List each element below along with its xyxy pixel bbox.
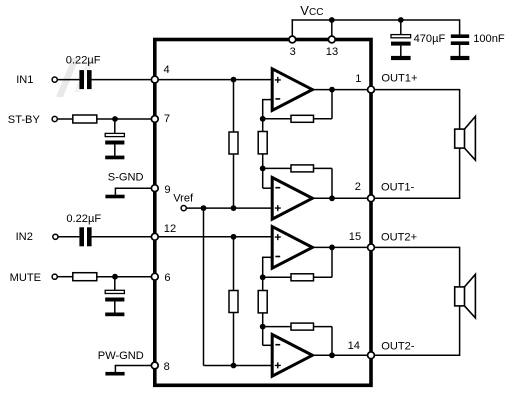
junction IN2-bias	[231, 234, 237, 240]
ground C4 bar	[450, 56, 469, 60]
wire IN1 to pin 4	[57, 79, 79, 81]
op-amp U1C	[272, 227, 312, 269]
junction op1 inverting node	[260, 116, 266, 122]
capacitor C1 0.22uF	[79, 70, 84, 89]
wire OUT2+ from op3 to pin 15 and speaker	[312, 246, 459, 248]
svg-text:OUT1+: OUT1+	[381, 72, 417, 84]
wire rail A Vref down to lower amps	[203, 208, 205, 365]
svg-text:15: 15	[349, 231, 361, 243]
op-amp U1B	[272, 178, 312, 220]
svg-text:PW-GND: PW-GND	[98, 350, 144, 362]
svg-text:IN1: IN1	[16, 74, 33, 86]
wire feedback op4	[263, 326, 332, 328]
op-amp U1D	[272, 335, 312, 377]
wire IN2 to pin 12	[58, 236, 80, 238]
junction VCC-C3	[398, 17, 404, 23]
wire feedback op3	[263, 276, 332, 278]
junction VCC-pin13	[329, 17, 335, 23]
wire S-GND to pin 9	[115, 187, 154, 189]
node ST-BY terminal	[52, 116, 57, 121]
ground C3 bar	[391, 56, 411, 60]
pin 8	[151, 362, 158, 369]
svg-text:9: 9	[164, 184, 170, 196]
junction op2 inverting node	[260, 166, 266, 172]
svg-text:4: 4	[164, 64, 170, 76]
resistor R-chain1	[258, 132, 267, 154]
wire bias rail 2 from IN2 node down	[233, 237, 235, 366]
wire speaker1 bottom riser	[459, 148, 461, 199]
pin 15	[368, 244, 375, 251]
junction railA-bias2	[231, 363, 237, 369]
junction op3 output	[329, 245, 335, 251]
wire speaker2 top riser	[459, 247, 461, 287]
pin 4	[151, 76, 158, 83]
svg-text:VCC: VCC	[300, 3, 323, 18]
junction Vref-bias1	[231, 205, 237, 211]
resistor R-MUTE	[73, 273, 97, 281]
capacitor C4 100nF	[459, 19, 461, 34]
svg-text:12: 12	[164, 223, 176, 235]
svg-text:0.22µF: 0.22µF	[66, 54, 101, 66]
node IN2 terminal	[53, 234, 58, 239]
svg-text:14: 14	[348, 340, 360, 352]
ground S-GND bar	[105, 195, 124, 199]
wire pin 3 riser to VCC rail	[291, 19, 293, 39]
node Vref terminal	[181, 206, 186, 211]
IC body U1	[155, 40, 371, 386]
wire PW-GND to pin 8	[115, 365, 154, 367]
svg-text:13: 13	[326, 46, 338, 58]
speaker LS2	[455, 287, 465, 306]
node MUTE terminal	[52, 274, 57, 279]
pin 7	[151, 116, 158, 123]
junction IN1-bias	[231, 77, 237, 83]
wire op1/op2 inverting column	[263, 99, 273, 101]
svg-text:2: 2	[355, 181, 361, 193]
pin 2	[368, 195, 375, 202]
pin 14	[368, 352, 375, 359]
svg-text:8: 8	[164, 361, 170, 373]
svg-text:S-GND: S-GND	[108, 171, 144, 183]
wire feedback op1	[263, 118, 332, 120]
resistor R-bias1	[229, 132, 238, 154]
capacitor C-MUTE	[114, 277, 116, 291]
resistor R-fb3	[291, 274, 314, 281]
svg-text:Vref: Vref	[173, 193, 194, 205]
wire pin 13 riser	[331, 20, 333, 40]
capacitor C3 470uF electrolytic	[400, 20, 402, 35]
svg-text:OUT2+: OUT2+	[381, 232, 417, 244]
resistor R-fb4	[291, 323, 314, 330]
wire bias rail from IN1 node down to Vref	[233, 80, 235, 209]
svg-text:7: 7	[164, 113, 170, 125]
svg-text:0.22µF: 0.22µF	[66, 213, 101, 225]
junction op1 output	[329, 87, 335, 93]
capacitor C-STBY	[114, 119, 116, 134]
wire ST-BY to pin 7	[57, 118, 73, 120]
wire op3/op4 inverting column	[263, 256, 273, 258]
resistor R-chain2	[258, 291, 267, 313]
svg-text:100nF: 100nF	[473, 33, 505, 45]
svg-text:OUT1-: OUT1-	[381, 181, 415, 193]
junction MUTE node	[112, 274, 118, 280]
watermark streak 1	[56, 58, 79, 97]
watermark streak 2	[74, 60, 94, 92]
capacitor C2 0.22uF	[79, 227, 84, 246]
resistor R-STBY	[73, 115, 97, 123]
speaker LS1	[455, 129, 465, 148]
wire feedback op2	[263, 167, 332, 169]
pin 12	[151, 233, 158, 240]
wire speaker2 bottom riser	[459, 306, 461, 356]
junction op4 output	[329, 352, 335, 358]
pin 6	[151, 273, 158, 280]
wire OUT1+ from op1 to pin 1 and speaker	[312, 89, 459, 91]
pin 13	[328, 36, 335, 43]
wire Vref line	[186, 207, 272, 209]
svg-text:IN2: IN2	[16, 231, 33, 243]
junction op4 inverting node	[260, 324, 266, 330]
svg-text:ST-BY: ST-BY	[8, 114, 41, 126]
svg-text:OUT2-: OUT2-	[381, 341, 415, 353]
pin 3	[289, 36, 296, 43]
op-amp U1A	[272, 69, 312, 111]
svg-text:6: 6	[164, 272, 170, 284]
pin 1	[368, 86, 375, 93]
wire VCC rail	[292, 19, 460, 21]
svg-text:3: 3	[290, 46, 296, 58]
svg-text:MUTE: MUTE	[10, 272, 41, 284]
resistor R-bias2	[229, 291, 238, 313]
wire speaker1 top riser	[459, 89, 461, 129]
wire OUT1- from op2 to pin 2 and speaker	[312, 197, 459, 199]
pin 9	[151, 185, 158, 192]
junction op2 output	[329, 195, 335, 201]
junction Vref-railA	[201, 205, 207, 211]
wire OUT2- from op4 to pin 14 and speaker	[312, 354, 459, 356]
node IN1 terminal	[52, 77, 57, 82]
resistor R-fb2	[291, 165, 314, 172]
junction ST-BY node	[112, 116, 118, 122]
svg-text:470µF: 470µF	[414, 33, 446, 45]
svg-text:1: 1	[355, 73, 361, 85]
ground PW-GND bar	[105, 372, 124, 376]
resistor R-fb1	[291, 115, 314, 122]
wire MUTE to pin 6	[57, 276, 73, 278]
junction op3 inverting node	[260, 274, 266, 280]
